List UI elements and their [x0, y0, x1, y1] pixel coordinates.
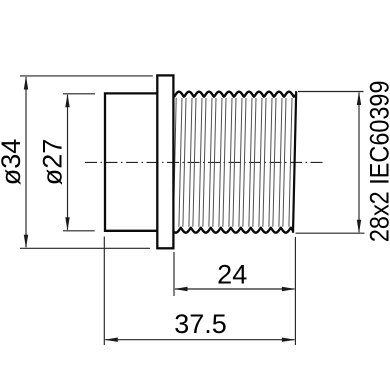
thread flank lines [173, 98, 292, 227]
dimension 24 line [175, 288, 294, 290]
dimension o27 line [67, 95, 69, 230]
arrow 28x2 bottom [357, 220, 361, 234]
arrow o27 bottom [65, 217, 69, 231]
svg-text:37.5: 37.5 [174, 309, 227, 339]
arrow o34 bottom [24, 235, 28, 249]
body cylinder o27 [105, 93, 157, 230]
dimension 37.5 line [105, 339, 294, 341]
thread top profile [174, 92, 295, 97]
dimension o27 extension lines [63, 94, 95, 231]
arrow o27 top [65, 94, 69, 108]
arrow 37.5 left [104, 338, 118, 342]
arrow 24 right [282, 287, 296, 291]
arrow 37.5 right [282, 338, 296, 342]
arrow 24 left [174, 287, 188, 291]
thread bottom profile [174, 228, 293, 233]
svg-text:ø34: ø34 [0, 139, 26, 186]
dimension 24 extension lines [174, 237, 295, 345]
arrow o34 top [24, 76, 28, 90]
thread end edge [293, 91, 296, 233]
dimension o34 line [25, 77, 27, 247]
dimension o34 extension lines [20, 76, 153, 248]
svg-text:28x2 IEC60399: 28x2 IEC60399 [365, 80, 390, 242]
flange o34 [157, 75, 173, 248]
svg-text:ø27: ø27 [38, 139, 68, 186]
centerline [85, 161, 326, 163]
dimension 28x2 extension lines [296, 92, 365, 234]
dimension 37.5 extension line [104, 237, 294, 346]
svg-text:24: 24 [217, 260, 247, 290]
arrow 28x2 top [357, 92, 361, 106]
dimension 28x2 line [358, 93, 360, 233]
